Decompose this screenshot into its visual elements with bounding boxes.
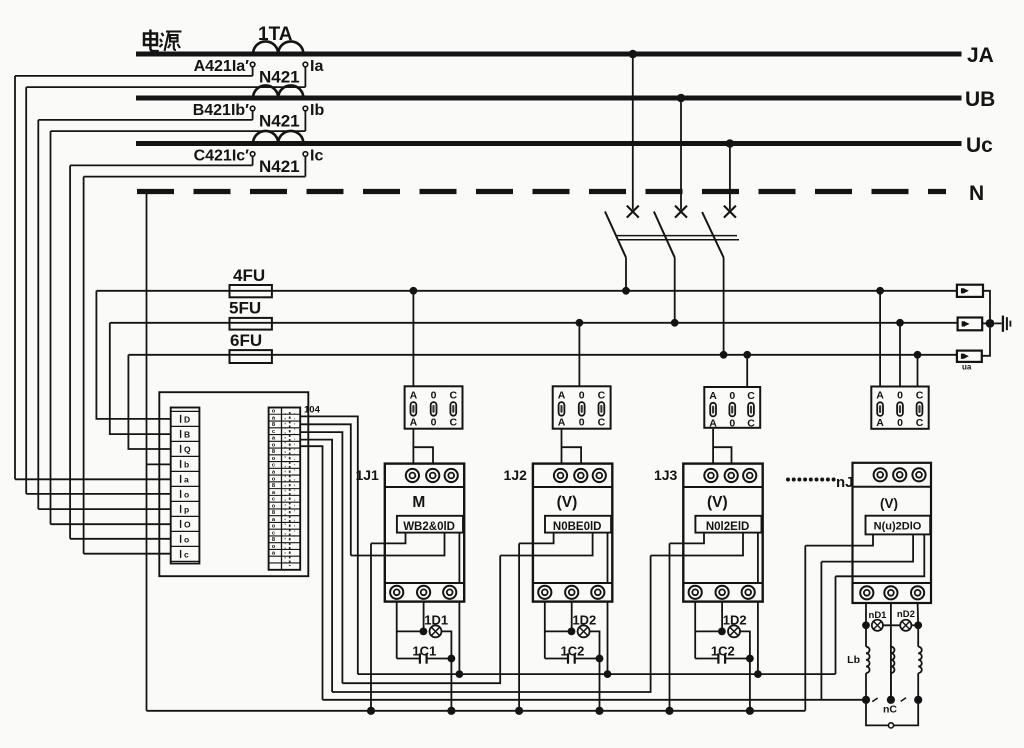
- wire nJ bottom loop: [866, 700, 918, 726]
- CT 1TA-2 primary winding arcs: [253, 85, 303, 98]
- wire 1J3 bottom terminal 2 down: [721, 602, 723, 632]
- indicator lamp 1D2: [578, 625, 590, 637]
- wire N branch to terminal 4: [147, 463, 171, 465]
- CT 3 wire S2 left run: [84, 176, 306, 178]
- svg-text:5FU: 5FU: [229, 299, 261, 318]
- wire nJ coil-b bottom: [890, 673, 892, 700]
- meter nJ bottom terminal 3: [911, 586, 924, 599]
- svg-text:(V): (V): [707, 494, 728, 511]
- meter nJ top strip divider: [853, 486, 932, 488]
- svg-text:1C2: 1C2: [560, 643, 584, 658]
- wire feed 1J2 from phase B: [578, 323, 580, 387]
- meter 1J3 internal wire B: [651, 533, 743, 556]
- switch blade pole 1: [605, 212, 626, 258]
- junction dot 1J2 on W5: [595, 707, 603, 715]
- wire arrester 1 output: [983, 291, 990, 319]
- meter 1J2 symbol (V): [557, 494, 578, 511]
- CT 3 wire S1 vertical to terminal row: [69, 165, 71, 538]
- meter 1J2 top terminal 1: [554, 469, 567, 482]
- meter 1J2 nameplate text: [553, 521, 602, 533]
- meter nJ symbol (V): [880, 496, 898, 511]
- inductor coil Lc: [918, 647, 922, 673]
- CT 2 wire S1 into terminal block: [38, 508, 170, 510]
- meter 1J2 label: [504, 467, 528, 483]
- meter nJ top terminal 2: [893, 468, 906, 481]
- meter 1J3 bottom terminal 2: [716, 586, 729, 599]
- meter 1J1 bottom terminal 2: [417, 586, 430, 599]
- meter nJ nameplate rect: [866, 516, 931, 535]
- wire arrester 3 output: [982, 328, 990, 356]
- svg-text:0: 0: [579, 417, 585, 429]
- wire nJ bottom-left down: [865, 603, 867, 625]
- svg-text:M: M: [412, 494, 425, 511]
- meter 1J1 top terminal 1: [406, 469, 419, 482]
- fuse-link box FU-nJ (A B C): [871, 387, 928, 429]
- wire 6FU left drop to terminal 3: [128, 355, 170, 449]
- meter 1J2 top terminal 3: [593, 469, 606, 482]
- arrester box 3 inner mark: [961, 354, 969, 359]
- capacitor 1C1: [397, 653, 452, 663]
- wire 1J3 junction down to W5: [749, 659, 751, 711]
- wire terminal exit y=446.2 (to bottom bus W4): [300, 446, 322, 700]
- CT 2 wire S2 down: [304, 111, 306, 131]
- arrester box 3: [957, 351, 982, 362]
- bus label JA: [967, 44, 994, 67]
- wire blade 1 down to phase wire: [625, 258, 627, 291]
- wire feed nJ phase B: [899, 323, 901, 387]
- label Ib: [310, 102, 324, 119]
- power label 电源 (hand-drawn strokes): [144, 30, 182, 52]
- node small circle on bottom loop: [888, 723, 893, 728]
- bus N (neutral, dashed): [137, 189, 946, 194]
- svg-text:N421: N421: [259, 157, 300, 176]
- wire feed nJ phase C: [917, 355, 919, 387]
- terminal strip right scribble column: [272, 409, 295, 566]
- svg-text:o: o: [272, 544, 276, 550]
- junction dot 1J1 on W1: [456, 670, 464, 678]
- svg-text:0: 0: [729, 390, 735, 402]
- label 1C1: [412, 643, 436, 658]
- junction dot bus tap 3: [726, 139, 735, 148]
- fuse-link box FU-1J1 (A B C): [405, 386, 463, 428]
- terminal strip left (10 terminals): [171, 408, 200, 564]
- junction dot 1J1 lamp input: [420, 628, 428, 636]
- meter 1J2 internal wire B: [500, 533, 592, 556]
- junction dot feed 1J3: [743, 351, 751, 359]
- wire terminal exit y=416.4 (to bottom bus W1): [300, 416, 358, 674]
- meter nJ outer box: [853, 463, 932, 603]
- label Lb: [847, 654, 860, 666]
- meter 1J1 outer box: [385, 464, 464, 602]
- meter 1J3 label: [654, 467, 678, 483]
- fuse-link box FU-1J3 (A B C): [704, 387, 760, 429]
- wire blade 2 down to phase wire: [674, 258, 676, 323]
- junction dot 1J3 on W5: [746, 707, 754, 715]
- CT 1 wire S1 into terminal block: [15, 478, 171, 480]
- svg-text:(V): (V): [557, 494, 578, 511]
- label 1C2: [711, 643, 735, 658]
- earth ground symbol: [1003, 316, 1011, 332]
- wire nJ lamp row right segment: [911, 624, 918, 626]
- wire phase-B distribution (through 5FU): [110, 322, 958, 324]
- junction dot 1J2 on W1: [604, 670, 612, 678]
- svg-text:0: 0: [431, 417, 437, 429]
- svg-text:nD2: nD2: [897, 609, 915, 620]
- svg-text:A: A: [558, 417, 566, 429]
- junction dot bus tap 1: [629, 50, 638, 59]
- wire 1J1 bottom terminal 2 down: [423, 602, 425, 632]
- wire to earth: [994, 322, 1001, 324]
- label Ic: [310, 148, 323, 165]
- wire W5 (bottom, y710.8): [147, 710, 806, 712]
- svg-text:c: c: [184, 549, 189, 559]
- meter 1J1 top terminal strip divider: [385, 486, 464, 488]
- wire feed nJ phase A: [879, 291, 881, 387]
- meter 1J3 bottom strip divider: [683, 582, 762, 584]
- CT 1 wire S2 vertical to terminal row: [25, 87, 27, 494]
- svg-text:A421Ia′: A421Ia′: [194, 58, 250, 75]
- CT 2 wire S2 into terminal block: [51, 523, 171, 525]
- fuse 6FU: [230, 350, 272, 363]
- terminal strip right (24 small terminals): [269, 408, 301, 570]
- switch blade pole 3: [702, 212, 724, 258]
- meter 1J1 nameplate rect: [397, 516, 463, 533]
- wire 1J2 junction down to W5: [599, 659, 601, 711]
- inductor coil La: [866, 647, 870, 673]
- switch contact X mark pole 3: [724, 206, 736, 218]
- CT 2 wire S1 vertical to terminal row: [37, 120, 39, 509]
- junction dot 1J2 lamp input: [568, 628, 576, 636]
- wire nJ bottom-middle down: [890, 603, 892, 700]
- meter nJ bottom terminal 1: [860, 586, 873, 599]
- svg-text:o: o: [272, 409, 276, 415]
- label 1D2: [723, 613, 747, 628]
- CT 3 wire S2 vertical to terminal row: [83, 177, 85, 554]
- wire nJ coil-a lead: [865, 625, 867, 646]
- wire 1J3 bottom terminal 1 down: [694, 602, 696, 659]
- wire W3 (y692.0): [332, 556, 650, 693]
- wire fuse-link box exit to meter at x=413.4: [413, 429, 433, 464]
- wire W4 (y699.8): [323, 699, 867, 701]
- label 6FU: [230, 331, 262, 350]
- meter 1J2 top terminal strip divider: [533, 486, 612, 488]
- wire 1J3 lamp branch: [695, 630, 722, 632]
- wire nJ-1 down to W5 end: [804, 546, 806, 711]
- svg-text:C421Ic′: C421Ic′: [194, 148, 250, 165]
- wire fuse-link box exit to meter at x=713.1: [713, 429, 731, 464]
- junction dot nJ coil-c on W4: [914, 696, 922, 704]
- meter 1J1 internal wire C: [458, 533, 460, 583]
- svg-text:A: A: [410, 390, 418, 402]
- meter 1J1 top terminal 3: [445, 469, 458, 482]
- wire nJ lamp row middle segment: [883, 624, 900, 626]
- svg-text:N: N: [969, 182, 984, 205]
- meter nJ internal wire 1: [805, 534, 873, 545]
- CT 2 wire S2 left run: [51, 130, 306, 132]
- wire nJ coil-a bottom: [865, 673, 867, 700]
- meter 1J3 symbol (V): [707, 494, 728, 511]
- svg-text:A: A: [709, 390, 717, 402]
- CT 3 wire S1 into terminal block: [70, 538, 171, 540]
- svg-text:o: o: [184, 534, 189, 544]
- junction dot 1J3 wireA on W5: [665, 707, 673, 715]
- wire 1J1 wireA down to W5: [370, 543, 372, 710]
- label N421: [259, 157, 300, 176]
- wire 1J3 lamp output: [740, 631, 750, 658]
- CT 2 secondary terminal S1: [250, 106, 255, 111]
- switch blade pole 2: [654, 212, 675, 258]
- svg-text:A: A: [410, 417, 418, 429]
- junction dot 1J3 on W1: [754, 670, 762, 678]
- terminal block outer box: [159, 392, 308, 576]
- bus UB (phase B busbar): [136, 96, 962, 101]
- junction dot bus tap 2: [677, 94, 686, 103]
- wire 1J3 wireA down to W5: [669, 543, 671, 710]
- wire bus tap 3 to switch: [729, 146, 731, 210]
- svg-text:a: a: [184, 474, 189, 484]
- CT 3 wire S1 down: [252, 156, 254, 165]
- wire bus tap 2 to switch: [680, 101, 682, 210]
- wire nJ-2 down to W4: [820, 562, 822, 700]
- fuse-link box FU-1J2 (A B C): [553, 386, 611, 428]
- svg-text:Uc: Uc: [966, 134, 993, 157]
- meter 1J2 top terminal 2: [574, 469, 587, 482]
- svg-text:1J3: 1J3: [654, 467, 678, 483]
- CT 1 wire S2 left run: [26, 86, 305, 88]
- wire nJ-3 down to W1 end: [835, 576, 837, 674]
- meter 1J1 symbol M: [412, 494, 425, 511]
- svg-text:JA: JA: [967, 44, 994, 67]
- wire terminal exit y=439.6 (to bottom bus W3): [300, 440, 332, 692]
- svg-text:nC: nC: [883, 704, 897, 716]
- wire 1J1 bottom terminal 1 down: [396, 602, 398, 659]
- label ua: [962, 363, 972, 372]
- svg-text:C: C: [747, 417, 755, 429]
- svg-text:A: A: [876, 417, 884, 429]
- label 104 (wire number): [304, 405, 321, 416]
- arrester box 1: [957, 285, 983, 297]
- junction dot feed nJ-A: [876, 287, 884, 295]
- meter nJ nameplate text: [874, 521, 922, 533]
- CT 3 wire S2 down: [304, 156, 306, 176]
- wire 1J2 wireA down to W5: [518, 543, 520, 710]
- meter 1J3 nameplate text: [706, 521, 749, 533]
- CT 1 secondary terminal S2: [303, 62, 308, 67]
- inductor coil Lb: [891, 647, 895, 673]
- bus label Uc: [966, 134, 993, 157]
- CT 1 wire S1 left run: [15, 75, 253, 77]
- meter nJ internal wire 2: [821, 534, 913, 561]
- junction dot nJ lamp row left: [862, 621, 870, 629]
- meter nJ bottom strip divider: [853, 582, 932, 584]
- CT 2 wire S1 left run: [38, 119, 252, 121]
- label N421: [259, 112, 300, 131]
- indicator lamp nD1: [872, 620, 883, 631]
- meter 1J1 bottom terminal 3: [443, 586, 456, 599]
- wire 1J3 strip-right down to W1: [757, 602, 759, 675]
- wire fuse-link box exit to meter at x=561.5: [562, 429, 582, 464]
- svg-text:o: o: [272, 442, 276, 448]
- wire 1J1 junction down to W5: [450, 659, 452, 711]
- indicator lamp nD2: [900, 620, 911, 631]
- label 1D1: [424, 613, 448, 628]
- svg-text:A: A: [558, 390, 566, 402]
- CT 1 wire S1 down: [252, 67, 254, 76]
- svg-text:WB2&0lD: WB2&0lD: [403, 521, 455, 533]
- junction dot blade 1: [622, 287, 630, 295]
- switch linkage bar (double line): [616, 236, 739, 240]
- wire W2 (y683.2): [342, 556, 500, 684]
- arrester box 2 inner mark: [962, 321, 970, 326]
- CT 2 wire S1 down: [252, 111, 254, 120]
- meter 1J1 bottom strip divider: [385, 582, 464, 584]
- svg-text:p: p: [184, 504, 189, 514]
- bus Uc (phase C busbar): [136, 141, 962, 146]
- meter 1J2 bottom terminal 1: [538, 586, 551, 599]
- tick marks on W4 between coils: [872, 698, 906, 702]
- svg-text:104: 104: [304, 405, 321, 416]
- svg-text:N421: N421: [259, 112, 300, 131]
- svg-text:C: C: [598, 417, 606, 429]
- meter 1J1 internal wire B: [351, 533, 445, 556]
- wire 1J2 lamp output: [590, 631, 600, 658]
- wire 1J2 strip-right down to W1: [607, 602, 609, 675]
- wire terminal exit y=424.3 (to 1J1 voltage link): [300, 424, 351, 555]
- svg-text:o: o: [272, 456, 276, 462]
- junction dot nJ lamp row right: [914, 621, 922, 629]
- meter nJ bottom terminal 2: [884, 586, 897, 599]
- label 1C2: [560, 643, 584, 658]
- meter 1J3 top terminal strip divider: [683, 486, 762, 488]
- wire phase-C distribution (through 6FU): [128, 354, 957, 356]
- svg-text:Ib: Ib: [310, 102, 324, 119]
- switch contact X mark pole 1: [627, 206, 639, 218]
- meter 1J2 bottom terminal 3: [591, 586, 604, 599]
- wire 4FU left drop to terminal 1: [96, 291, 170, 419]
- wire feed 1J1 from phase A: [412, 291, 414, 387]
- label 5FU: [229, 299, 261, 318]
- wire 1J2 bottom terminal 2 down: [571, 602, 573, 632]
- meter 1J1 nameplate text: [403, 521, 455, 533]
- svg-text:C: C: [450, 390, 458, 402]
- svg-text:o: o: [272, 503, 276, 509]
- label 1D2: [572, 613, 596, 628]
- label A421Ia': [194, 58, 250, 75]
- svg-text:N(u)2DlO: N(u)2DlO: [874, 521, 922, 533]
- wire nJ coil-c lead: [917, 625, 919, 646]
- CT 1 wire S2 down: [304, 67, 306, 87]
- svg-text:nJ: nJ: [836, 474, 854, 491]
- svg-text:(V): (V): [880, 496, 898, 511]
- meter 1J3 nameplate rect: [695, 516, 761, 533]
- svg-text:1J1: 1J1: [355, 467, 379, 483]
- meter 1J1 internal wire A: [371, 533, 406, 544]
- wire nJ coil-c bottom: [917, 673, 919, 700]
- meter 1J1 top terminal 2: [426, 469, 439, 482]
- junction dot nJ coil-b on W4: [887, 696, 895, 704]
- arrester box 2: [958, 318, 983, 331]
- svg-text:UB: UB: [965, 88, 995, 111]
- wire 1J2 bottom terminal 1 down: [544, 602, 546, 659]
- svg-text:6FU: 6FU: [230, 331, 262, 350]
- junction dot 1J3 lamp/cap: [746, 655, 754, 663]
- svg-text:Q: Q: [184, 444, 191, 454]
- svg-text:N0l2ElD: N0l2ElD: [706, 521, 749, 533]
- junction dot feed 1J1: [410, 287, 418, 295]
- fuse 4FU: [230, 285, 272, 297]
- svg-text:C: C: [916, 417, 924, 429]
- svg-text:0: 0: [729, 417, 735, 429]
- label dotted continuation + nJ: [786, 474, 854, 491]
- svg-text:D: D: [184, 414, 190, 424]
- switch contact X mark pole 2: [675, 206, 687, 218]
- svg-text:1C2: 1C2: [711, 643, 735, 658]
- junction dot blade 3: [720, 351, 728, 359]
- svg-text:1J2: 1J2: [504, 467, 528, 483]
- capacitor 1C2: [695, 653, 750, 663]
- meter 1J3 internal wire C: [757, 533, 759, 583]
- svg-text:o: o: [272, 476, 276, 482]
- arrester box 1 inner mark: [961, 288, 969, 293]
- CT 3 wire S2 into terminal block: [84, 553, 171, 555]
- meter 1J2 nameplate rect: [545, 516, 611, 533]
- label B421Ib': [193, 102, 249, 119]
- CT 3 secondary terminal S1: [250, 152, 255, 157]
- junction dot blade 2: [671, 319, 679, 327]
- meter 1J3 internal wire A: [670, 533, 705, 544]
- svg-text:C: C: [598, 390, 606, 402]
- CT 1 wire S1 vertical to terminal row: [14, 76, 16, 479]
- svg-text:O: O: [184, 519, 191, 529]
- svg-text:0: 0: [579, 390, 585, 402]
- junction dot 1J1 wireA on W5: [367, 707, 375, 715]
- label 4FU: [233, 266, 265, 285]
- junction dot feed nJ-B: [896, 319, 904, 327]
- CT 1 secondary terminal S1: [250, 62, 255, 67]
- CT 1TA-3 primary winding arcs: [253, 131, 303, 144]
- junction dot 1J2 wireA on W5: [515, 707, 523, 715]
- meter 1J3 bottom terminal 3: [742, 586, 755, 599]
- junction dot feed 1J2: [576, 319, 584, 327]
- svg-text:Ic: Ic: [310, 148, 323, 165]
- svg-text:4FU: 4FU: [233, 266, 265, 285]
- wire 1J1 lamp output: [442, 631, 452, 658]
- meter nJ top terminal 1: [874, 468, 887, 481]
- svg-text:0: 0: [897, 390, 903, 402]
- CT 2 secondary terminal S2: [303, 106, 308, 111]
- svg-text:Lb: Lb: [847, 654, 860, 666]
- CT 1 wire S2 into terminal block: [26, 493, 171, 495]
- svg-text:C: C: [747, 390, 755, 402]
- wire feed 1J3 from phase C: [746, 355, 748, 387]
- meter 1J3 top terminal 2: [725, 469, 738, 482]
- wire 5FU left drop to terminal 2: [110, 323, 171, 434]
- CT 3 wire S1 left run: [70, 164, 253, 166]
- terminal strip left labels: [181, 414, 191, 559]
- CT 2 wire S2 vertical to terminal row: [50, 131, 52, 524]
- svg-text:0: 0: [897, 417, 903, 429]
- svg-text:o: o: [184, 489, 189, 499]
- label N421: [259, 68, 300, 87]
- wire terminal exit y=432.1 (to bottom bus W2): [300, 432, 342, 683]
- svg-text:b: b: [184, 459, 189, 469]
- meter nJ internal wire 3: [836, 534, 925, 576]
- meter 1J3 outer box: [683, 464, 762, 602]
- wire bus tap 1 to switch: [632, 57, 634, 210]
- svg-text:o: o: [272, 524, 276, 530]
- svg-text:N421: N421: [259, 68, 300, 87]
- svg-text:C: C: [450, 417, 458, 429]
